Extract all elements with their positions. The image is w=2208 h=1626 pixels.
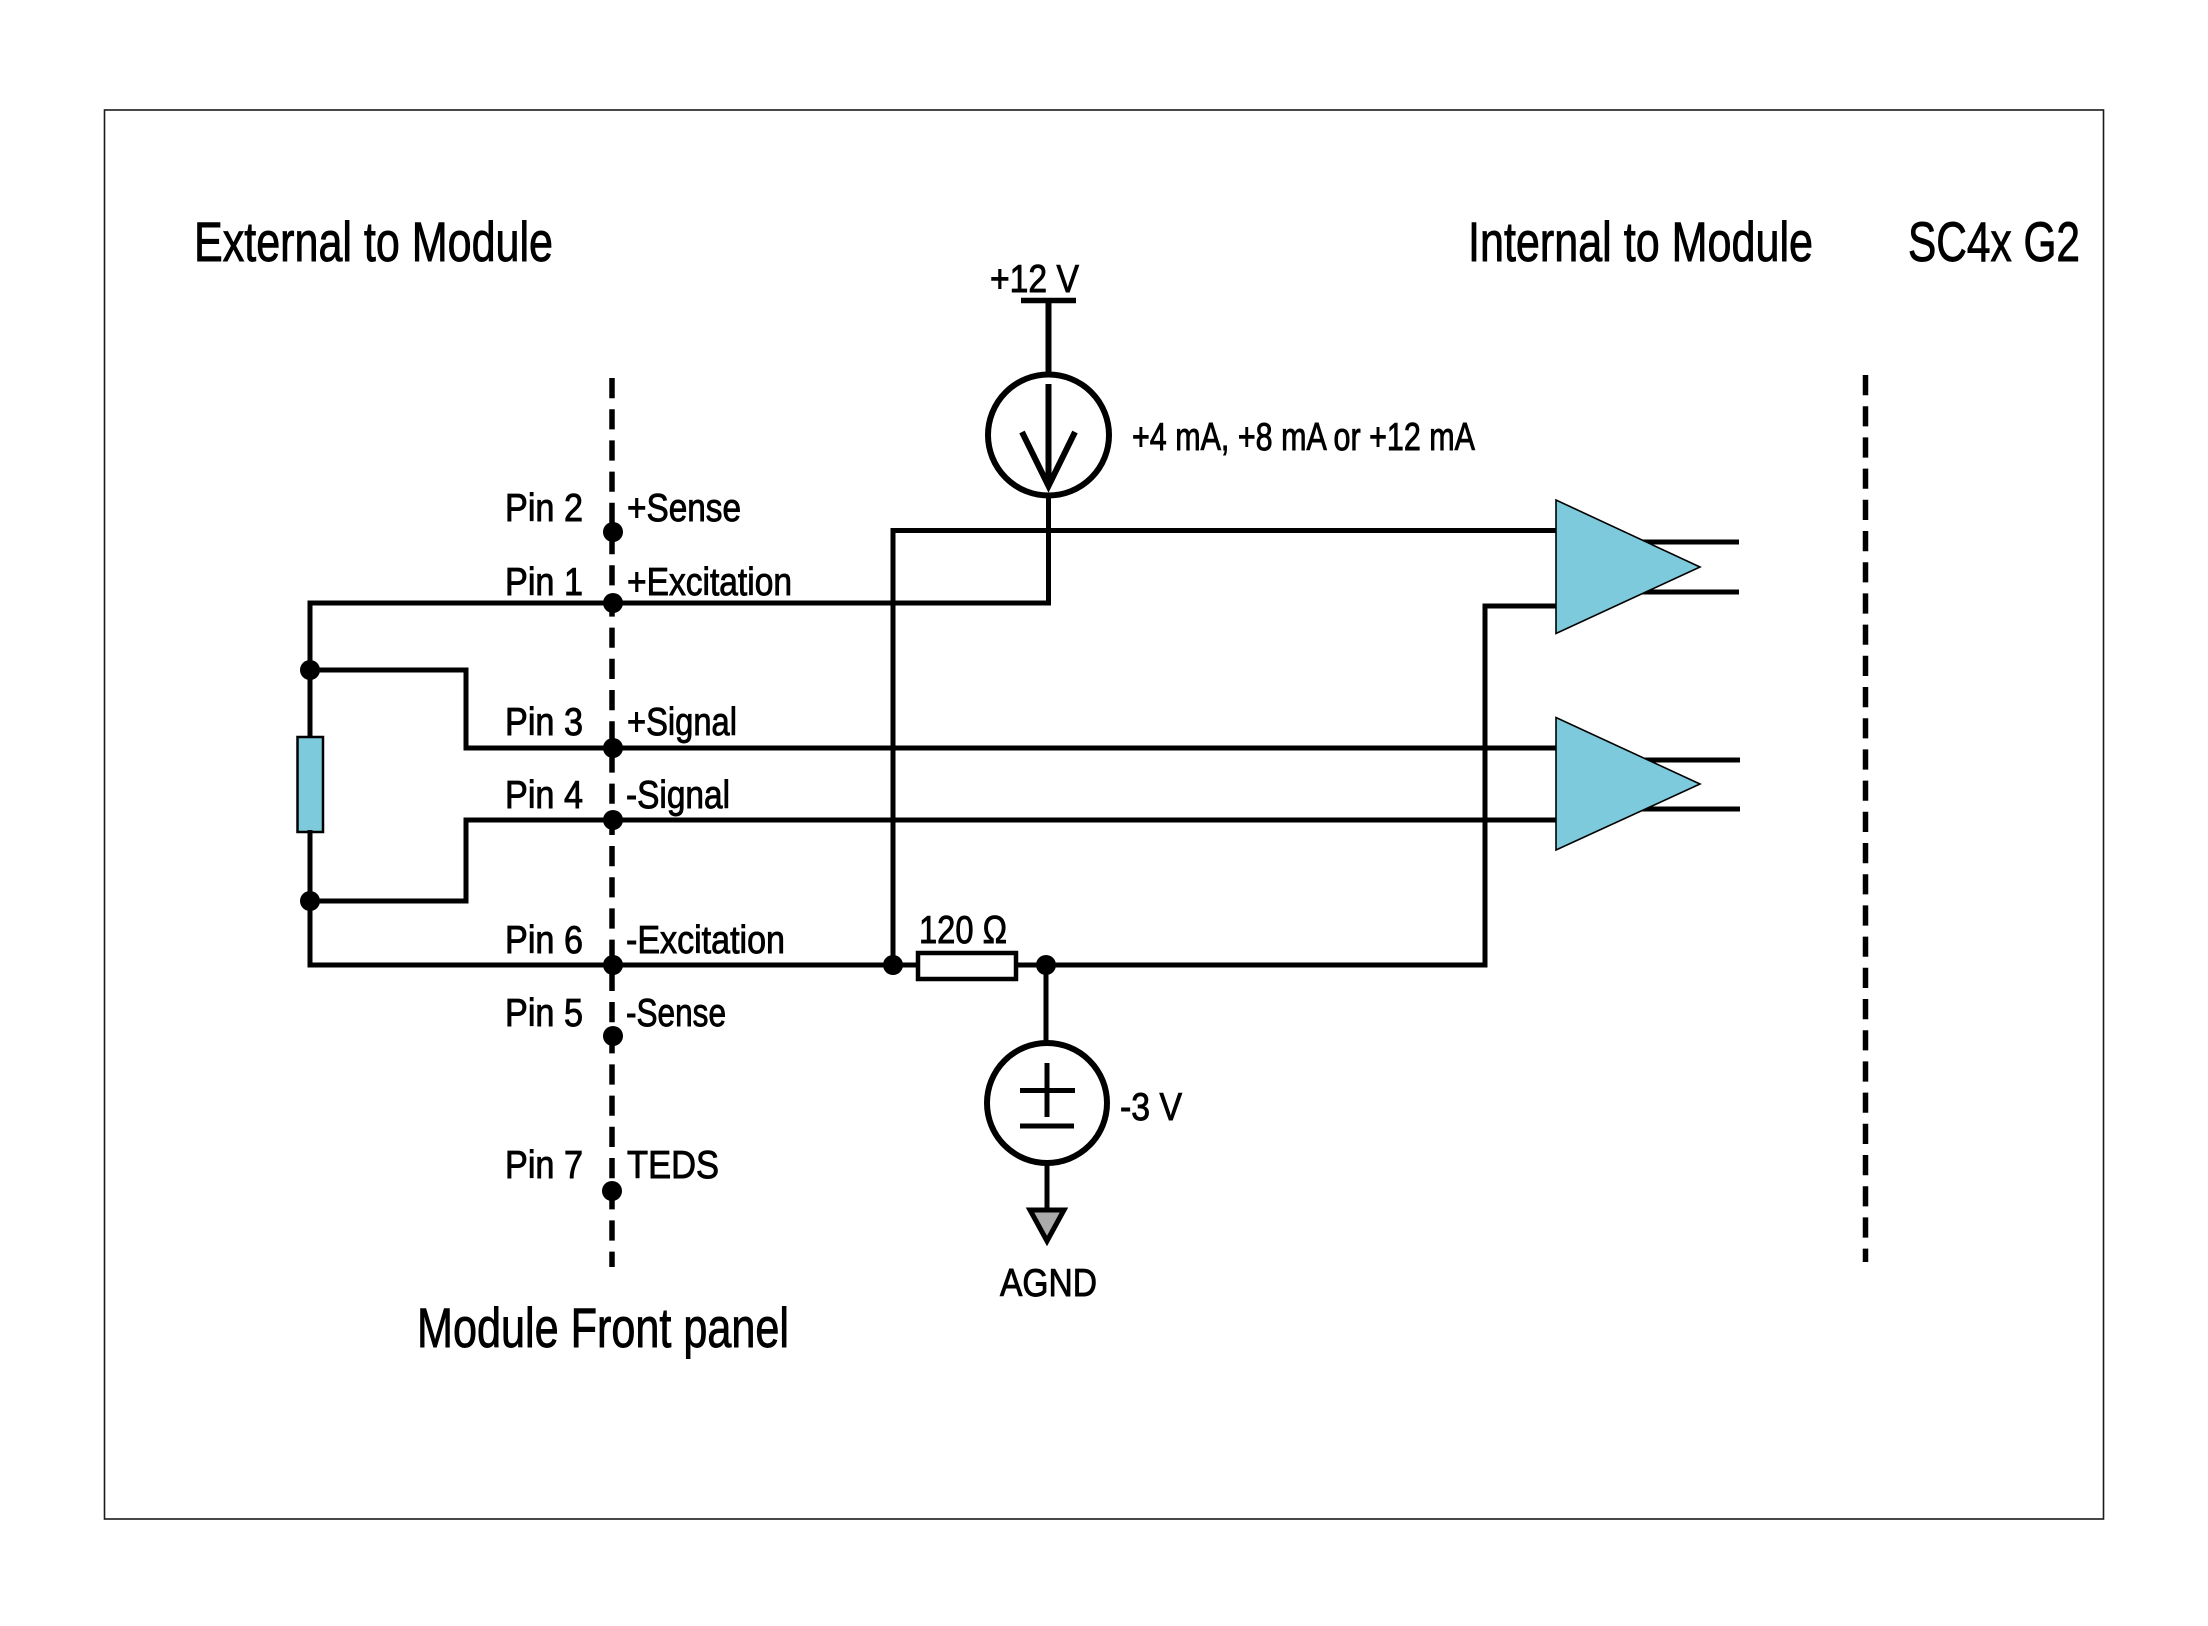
- wire -Signal: [464, 818, 1559, 823]
- wire resistor right to internal rail: [1016, 963, 1488, 968]
- node Pin 5: [603, 1026, 623, 1046]
- node Pin 6: [603, 955, 623, 975]
- svg-text:Pin 7: Pin 7: [505, 1144, 583, 1187]
- svg-text:Pin 1: Pin 1: [505, 561, 583, 604]
- op-amp U2 triangle: [1556, 718, 1700, 851]
- wire -Excitation node to -3V source: [1044, 965, 1049, 1043]
- node Pin 3: [603, 738, 623, 758]
- svg-text:Module Front panel: Module Front panel: [417, 1296, 789, 1359]
- node -Excitation resistor left: [883, 955, 903, 975]
- wire +Signal: [464, 746, 1559, 751]
- +12V supply bar: [1021, 298, 1076, 304]
- svg-text:Internal to Module: Internal to Module: [1468, 210, 1813, 273]
- current source arrow: [1022, 384, 1075, 486]
- current source I1 circle: [988, 375, 1109, 496]
- wire stub to +Signal: [310, 670, 466, 750]
- wire +Sense into top amplifier: [893, 531, 1558, 966]
- svg-text:External to Module: External to Module: [194, 210, 553, 273]
- voltage source plus-minus symbol: [1020, 1063, 1075, 1126]
- svg-text:+4 mA, +8 mA or +12 mA: +4 mA, +8 mA or +12 mA: [1132, 416, 1475, 459]
- resistor 120 Ohm: [918, 953, 1016, 979]
- wire stub from -Signal down to sensor bottom junction: [310, 818, 466, 901]
- svg-text:SC4x G2: SC4x G2: [1908, 210, 2080, 273]
- svg-text:+Signal: +Signal: [627, 701, 737, 744]
- svg-text:Pin 4: Pin 4: [505, 774, 583, 817]
- wire +Excitation: [308, 601, 1052, 606]
- svg-text:-Sense: -Sense: [626, 992, 726, 1035]
- wire sensor left bottom: [308, 830, 313, 968]
- wire -3V source to AGND: [1045, 1163, 1050, 1212]
- node sensor top junction: [300, 660, 320, 680]
- svg-text:-Excitation: -Excitation: [626, 919, 785, 962]
- svg-text:Pin 6: Pin 6: [505, 919, 583, 962]
- op-amp U1 triangle: [1556, 500, 1700, 634]
- node Pin 4: [603, 810, 623, 830]
- svg-text:Pin 2: Pin 2: [505, 487, 583, 530]
- svg-text:Pin 5: Pin 5: [505, 992, 583, 1035]
- voltage source -3V circle: [987, 1043, 1107, 1163]
- svg-text:+12 V: +12 V: [990, 258, 1079, 301]
- border frame: [105, 110, 2104, 1519]
- node Pin 1: [603, 593, 623, 613]
- sensor element R gauge: [298, 737, 324, 832]
- svg-text:120 Ω: 120 Ω: [919, 909, 1007, 952]
- node Pin 2: [603, 522, 623, 542]
- node resistor right: [1036, 955, 1056, 975]
- dashed line Module Front panel: [609, 378, 615, 1267]
- svg-text:-Signal: -Signal: [626, 774, 730, 817]
- wire internal rail up to top amplifier lower input: [1485, 606, 1558, 965]
- node sensor bottom junction: [300, 891, 320, 911]
- svg-text:AGND: AGND: [1000, 1262, 1097, 1305]
- svg-text:+Sense: +Sense: [627, 487, 741, 530]
- ground AGND arrow: [1030, 1210, 1064, 1241]
- dashed line right internal boundary: [1863, 375, 1869, 1262]
- wire current source to +Excitation: [1046, 495, 1051, 606]
- svg-text:-3 V: -3 V: [1120, 1086, 1182, 1129]
- op-amp U2 output wires: [1640, 760, 1740, 809]
- node Pin 7: [602, 1181, 622, 1201]
- wire +12V to current source: [1046, 300, 1052, 375]
- svg-text:+Excitation: +Excitation: [627, 561, 792, 604]
- svg-text:TEDS: TEDS: [627, 1144, 719, 1187]
- svg-text:Pin 3: Pin 3: [505, 701, 583, 744]
- op-amp U1 output wires: [1640, 542, 1739, 592]
- wire sensor left top: [308, 601, 313, 740]
- wire -Excitation: [308, 963, 921, 968]
